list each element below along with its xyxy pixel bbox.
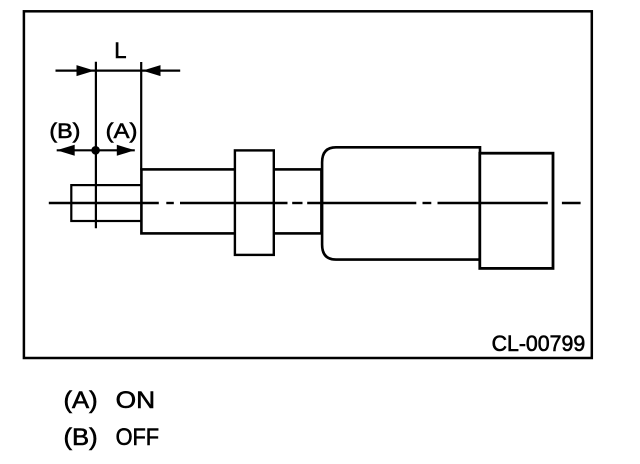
svg-text:ON: ON [116,387,156,414]
svg-text:L: L [114,38,126,63]
svg-text:(B): (B) [49,120,80,143]
svg-text:(A): (A) [64,387,98,414]
svg-text:OFF: OFF [116,424,160,451]
svg-text:(B): (B) [64,424,98,451]
svg-text:CL-00799: CL-00799 [492,331,586,356]
svg-text:(A): (A) [106,120,138,143]
